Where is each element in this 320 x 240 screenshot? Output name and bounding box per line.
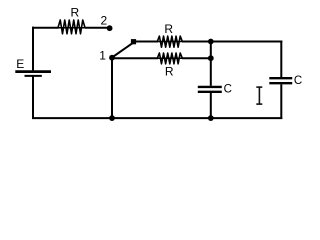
junction dot bottom row: [208, 55, 214, 61]
junction dot bottom left: [109, 115, 115, 121]
bottom wire: [32, 117, 282, 119]
svg-text:C: C: [224, 83, 232, 95]
wire to node 2: [85, 27, 108, 29]
wire R2 to right corner: [182, 41, 282, 43]
svg-text:E: E: [16, 57, 24, 71]
svg-text:R: R: [165, 64, 174, 78]
wire top left: [32, 27, 59, 29]
svg-text:R: R: [164, 22, 173, 36]
junction dot top of C branch: [208, 39, 214, 45]
svg-text:R: R: [70, 6, 79, 20]
capacitor C (middle): [198, 87, 222, 92]
wire battery positive up: [32, 27, 34, 71]
text cursor I-beam: [256, 87, 262, 104]
svg-text:2: 2: [101, 13, 108, 27]
switch arm from node 1: [112, 43, 133, 58]
wire node1 to R3: [112, 57, 159, 59]
node 1: [109, 55, 115, 61]
wire top right corner down: [280, 41, 282, 78]
battery E: [15, 72, 51, 76]
wire node 1 down: [111, 58, 113, 119]
switch contact square: [131, 39, 136, 44]
wire capacitor to bottom right corner: [280, 84, 282, 119]
resistor R (middle bottom): [157, 57, 182, 59]
resistor R (middle top): [157, 41, 182, 43]
node 2: [107, 25, 113, 31]
resistor R (top): [58, 27, 85, 29]
wire R3 to junction: [182, 57, 211, 59]
junction dot bottom middle: [208, 115, 214, 121]
svg-text:C: C: [294, 75, 302, 87]
wire capacitor to bottom: [210, 93, 212, 119]
svg-text:1: 1: [99, 49, 106, 63]
capacitor C (right): [269, 78, 292, 83]
wire junction down to capacitor: [210, 42, 212, 86]
wire switch to R2: [136, 41, 159, 43]
wire battery negative down: [32, 77, 34, 120]
